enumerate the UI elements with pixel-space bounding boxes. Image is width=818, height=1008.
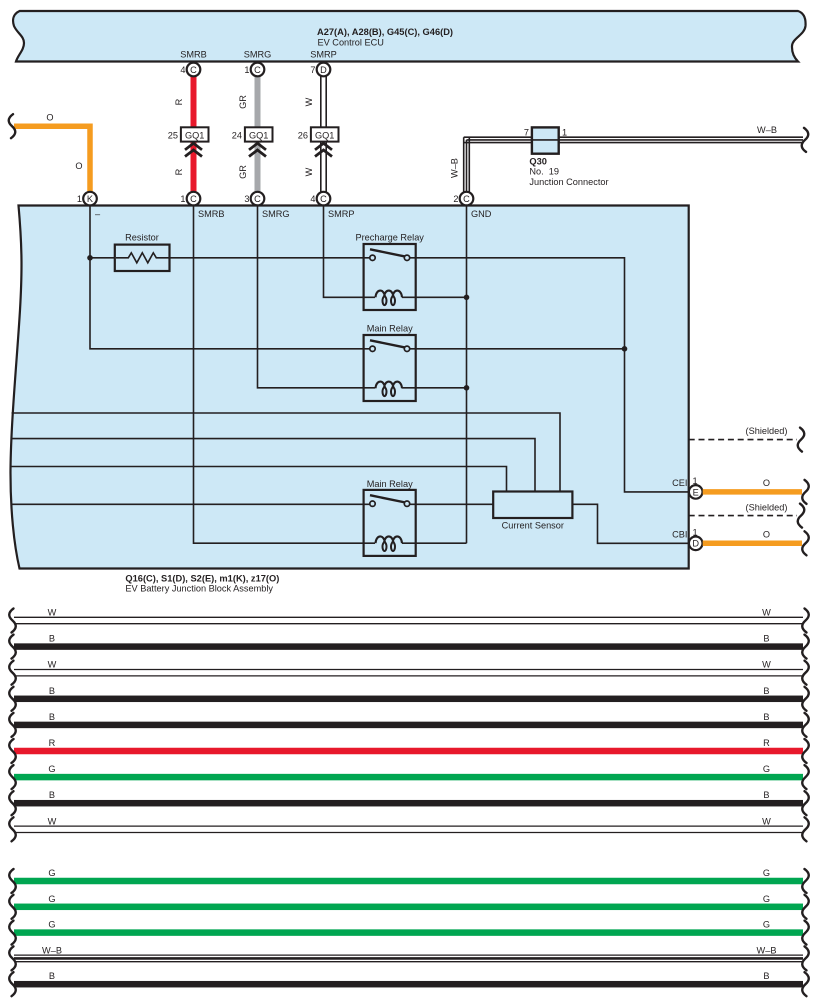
svg-text:B: B — [49, 686, 55, 696]
svg-text:G: G — [48, 894, 55, 904]
svg-text:Main Relay: Main Relay — [367, 323, 413, 333]
svg-text:W–B: W–B — [42, 945, 62, 955]
wire B — [14, 981, 803, 988]
svg-text:B: B — [763, 634, 769, 644]
svg-text:C: C — [254, 65, 261, 75]
svg-text:C: C — [190, 194, 197, 204]
svg-text:W: W — [48, 608, 57, 618]
svg-text:C: C — [463, 194, 470, 204]
svg-text:CBI: CBI — [672, 530, 687, 540]
svg-text:C: C — [190, 65, 197, 75]
svg-text:B: B — [49, 634, 55, 644]
svg-text:O: O — [763, 530, 770, 540]
svg-text:R: R — [174, 98, 184, 105]
svg-text:W: W — [762, 660, 771, 670]
svg-text:24: 24 — [232, 131, 242, 141]
svg-text:GQ1: GQ1 — [185, 130, 204, 140]
junction dot main switch/CEI vertical — [622, 346, 628, 352]
svg-text:A27(A), A28(B), G45(C), G46(D): A27(A), A28(B), G45(C), G46(D) — [317, 27, 453, 37]
wire W SMRP — [321, 76, 326, 193]
svg-text:1: 1 — [562, 128, 567, 138]
svg-text:CEI: CEI — [672, 478, 687, 488]
svg-text:W–B: W–B — [757, 945, 777, 955]
wire B — [14, 722, 803, 729]
wire shielded line1 to sensor — [12, 413, 561, 492]
wire B — [14, 696, 803, 703]
svg-text:1: 1 — [180, 194, 185, 204]
svg-text:B: B — [49, 971, 55, 981]
connector GQ1 #26 — [311, 127, 339, 141]
svg-text:O: O — [763, 478, 770, 488]
svg-text:O: O — [46, 113, 53, 123]
svg-text:(Shielded): (Shielded) — [746, 426, 788, 436]
svg-text:W–B: W–B — [450, 158, 460, 178]
wire main relay coil row — [402, 387, 467, 389]
junction block box — [10, 206, 688, 569]
svg-text:W: W — [762, 816, 771, 826]
svg-text:–: – — [95, 209, 101, 219]
svg-text:B: B — [763, 971, 769, 981]
wire lower relay switch row — [11, 503, 493, 505]
svg-text:2: 2 — [453, 194, 458, 204]
svg-text:Main Relay: Main Relay — [367, 479, 413, 489]
wire SMRB vertical — [194, 206, 376, 544]
wire main relay switch row — [410, 348, 625, 350]
svg-text:SMRP: SMRP — [310, 50, 337, 60]
wire shielded line3 to sensor — [11, 467, 507, 492]
svg-text:W: W — [304, 167, 314, 176]
svg-text:B: B — [49, 790, 55, 800]
wire SMRG vertical — [258, 206, 376, 388]
svg-text:SMRG: SMRG — [262, 209, 290, 219]
svg-text:G: G — [48, 764, 55, 774]
ECU band — [13, 11, 805, 62]
svg-text:B: B — [763, 712, 769, 722]
wire precharge switch to CEI vertical — [410, 258, 689, 492]
wire W-B — [14, 955, 803, 962]
svg-text:O: O — [75, 161, 82, 171]
svg-text:EV Battery Junction Block Asse: EV Battery Junction Block Assembly — [125, 584, 273, 594]
svg-text:3: 3 — [244, 194, 249, 204]
pin 1(C) — [187, 192, 201, 206]
svg-text:GND: GND — [471, 209, 492, 219]
wire group 2 — [9, 868, 809, 996]
pin 4(C) — [317, 192, 331, 206]
svg-text:Precharge Relay: Precharge Relay — [355, 232, 424, 242]
svg-text:7: 7 — [524, 128, 529, 138]
svg-text:C: C — [320, 194, 327, 204]
svg-text:Q30: Q30 — [529, 156, 547, 166]
svg-text:G: G — [763, 764, 770, 774]
wire O left — [14, 126, 90, 192]
pin 7(D) ECU — [317, 63, 331, 77]
svg-text:(Shielded): (Shielded) — [746, 502, 788, 512]
svg-text:E: E — [693, 487, 699, 497]
wire G — [14, 878, 803, 885]
shielded dashed line 2 — [689, 515, 797, 517]
svg-text:D: D — [692, 539, 699, 549]
junction dot main coil/GND — [464, 385, 470, 391]
wire W — [14, 670, 803, 676]
svg-text:SMRP: SMRP — [328, 209, 355, 219]
wire sensor to CBI — [572, 504, 689, 543]
svg-text:G: G — [763, 920, 770, 930]
svg-text:G: G — [48, 868, 55, 878]
junction dot K/resistor — [87, 255, 93, 261]
svg-text:4: 4 — [310, 194, 315, 204]
svg-text:Resistor: Resistor — [125, 233, 159, 243]
wire B — [14, 643, 803, 650]
svg-text:D: D — [320, 65, 327, 75]
wire lower relay coil row to GND — [402, 542, 467, 544]
wire shielded line2 to sensor — [11, 439, 535, 492]
connector GQ1 #25 — [181, 127, 209, 141]
wire O CBI — [703, 541, 802, 547]
svg-text:26: 26 — [298, 131, 308, 141]
pin 1(C) ECU — [251, 63, 265, 77]
svg-text:25: 25 — [168, 131, 178, 141]
wire O CEI — [703, 489, 802, 495]
svg-text:SMRB: SMRB — [180, 50, 207, 60]
svg-text:Junction Connector: Junction Connector — [529, 177, 608, 187]
svg-text:7: 7 — [310, 65, 315, 75]
wire precharge coil row — [402, 296, 467, 298]
svg-text:1: 1 — [77, 194, 82, 204]
junction connector Q30 — [532, 127, 559, 153]
wire W — [14, 826, 803, 832]
wire K vertical — [90, 206, 370, 349]
wire R — [14, 748, 803, 755]
svg-text:R: R — [174, 168, 184, 175]
svg-text:K: K — [87, 194, 94, 204]
wire R SMRB — [191, 76, 197, 129]
wire G — [14, 774, 803, 781]
wire GR SMRG — [255, 76, 261, 129]
wire resistor row — [90, 257, 370, 259]
svg-text:GQ1: GQ1 — [249, 130, 268, 140]
svg-text:W: W — [762, 608, 771, 618]
pin 2(C) GND — [460, 192, 474, 206]
svg-text:B: B — [763, 686, 769, 696]
pin 4(C) ECU — [187, 63, 201, 77]
svg-text:GQ1: GQ1 — [315, 130, 334, 140]
svg-text:G: G — [763, 868, 770, 878]
svg-text:R: R — [763, 738, 770, 748]
svg-text:EV Control ECU: EV Control ECU — [318, 38, 384, 48]
svg-text:W: W — [48, 816, 57, 826]
svg-text:1: 1 — [244, 65, 249, 75]
svg-text:Q16(C), S1(D), S2(E), m1(K), z: Q16(C), S1(D), S2(E), m1(K), z17(O) — [125, 574, 279, 584]
svg-text:C: C — [254, 194, 261, 204]
wire W — [14, 617, 803, 623]
svg-text:SMRB: SMRB — [198, 209, 225, 219]
svg-text:4: 4 — [180, 65, 185, 75]
svg-text:W–B: W–B — [757, 125, 777, 135]
wire group 1 — [9, 608, 809, 842]
wire G — [14, 929, 803, 936]
wire GND vertical — [466, 206, 468, 544]
svg-text:G: G — [48, 920, 55, 930]
pin 1(K) — [83, 192, 97, 206]
svg-text:GR: GR — [238, 95, 248, 109]
svg-text:Current Sensor: Current Sensor — [502, 521, 564, 531]
junction dot precharge coil/GND — [464, 295, 470, 301]
svg-text:No. 19: No. 19 — [529, 167, 559, 177]
svg-text:G: G — [763, 894, 770, 904]
svg-text:W: W — [304, 97, 314, 106]
svg-text:SMRG: SMRG — [244, 50, 272, 60]
connector GQ1 #24 — [245, 127, 273, 141]
wire SMRP vertical — [324, 206, 376, 298]
svg-text:GR: GR — [238, 165, 248, 179]
wire B — [14, 800, 803, 807]
shielded dashed line 1 — [689, 439, 797, 441]
svg-text:B: B — [49, 712, 55, 722]
pin 3(C) — [251, 192, 265, 206]
svg-text:R: R — [49, 738, 56, 748]
current sensor — [493, 492, 572, 519]
wire G — [14, 904, 803, 911]
svg-text:W: W — [48, 660, 57, 670]
svg-text:B: B — [763, 790, 769, 800]
wire W-B to Q30 — [464, 137, 803, 192]
resistor R — [115, 245, 170, 271]
